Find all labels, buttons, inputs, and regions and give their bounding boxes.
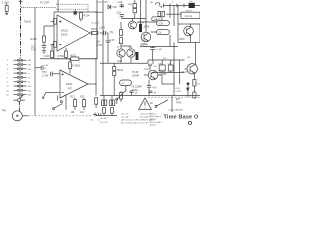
svg-text:C24: C24 <box>117 11 122 14</box>
transistor Q5 <box>140 32 151 46</box>
resistor network RN1 <box>102 96 107 116</box>
svg-text:SR.20: SR.20 <box>182 71 188 73</box>
svg-text:C41: C41 <box>145 69 150 71</box>
wire vertical x58 <box>57 0 59 12</box>
resistor R1 <box>2 1 9 15</box>
switch contact row 5 <box>7 77 31 80</box>
svg-text:1n: 1n <box>44 68 46 70</box>
switch contact row 8 <box>7 89 32 92</box>
oval adj <box>120 80 132 86</box>
svg-text:C.8R: C.8R <box>157 49 162 51</box>
transistor Q6 <box>179 24 193 42</box>
junction <box>173 83 174 84</box>
notes block <box>150 113 163 126</box>
capacitor C24b <box>148 91 156 95</box>
wire pill drop <box>169 35 171 47</box>
wire x97 <box>96 0 98 59</box>
svg-text:2k2: 2k2 <box>80 111 85 114</box>
svg-text:2V: 2V <box>158 31 161 34</box>
svg-text:E100: E100 <box>66 82 73 86</box>
capacitor C45 <box>193 80 202 87</box>
capacitor C24 <box>117 11 125 18</box>
connector CN3 <box>156 11 165 20</box>
capacitor C42 <box>147 80 158 96</box>
switch SW2 <box>53 96 63 110</box>
svg-text:C45: C45 <box>197 83 200 85</box>
resistor R22 <box>80 96 86 114</box>
shield chain line lower <box>19 102 21 112</box>
capacitor C120 input <box>42 71 60 77</box>
svg-text:x100: x100 <box>117 61 123 63</box>
svg-text:0.5V: 0.5V <box>158 22 163 25</box>
svg-text:R100: R100 <box>31 37 38 41</box>
capacitor C40 <box>148 64 158 70</box>
svg-text:HC1A: HC1A <box>61 29 68 33</box>
wire y95 rail <box>100 95 200 97</box>
svg-text:T.B COMP: T.B COMP <box>131 87 142 89</box>
diode D4 <box>105 1 118 9</box>
svg-text:Ta-ban-480340: Ta-ban-480340 <box>168 110 183 112</box>
svg-text:R21: R21 <box>71 96 76 99</box>
transistor Q7 <box>182 57 198 80</box>
power column wire <box>102 0 104 63</box>
svg-text:R107: R107 <box>91 28 98 31</box>
chain tick <box>19 1 23 3</box>
box top right <box>181 12 200 18</box>
svg-text:R103: R103 <box>70 54 77 57</box>
wire to callouts <box>137 18 156 32</box>
wire U2 output <box>88 83 96 85</box>
svg-text:5M: 5M <box>28 69 31 71</box>
wire x107 <box>107 44 109 63</box>
dotted signal line from shield <box>21 7 56 9</box>
wire feed to pad <box>74 9 76 11</box>
svg-text:SL.SET: SL.SET <box>92 23 100 25</box>
resistor R103 inline <box>51 54 96 60</box>
svg-text:C51 C52: C51 C52 <box>100 122 109 124</box>
svg-text:R.SW2: R.SW2 <box>72 65 81 68</box>
resistor R100 <box>31 36 46 46</box>
resistor R105 feedback leg <box>44 44 54 59</box>
dotted trace upper <box>56 3 88 5</box>
label ext <box>176 99 182 104</box>
dashed rail right <box>148 96 200 98</box>
wire x195 collector <box>195 42 197 64</box>
wire x128 drop <box>130 92 132 95</box>
svg-text:C2R: C2R <box>142 44 147 46</box>
junction pad <box>74 11 77 14</box>
svg-text:MOD 2: MOD 2 <box>150 119 157 121</box>
dotted trace lower <box>56 8 88 10</box>
test point TP12 <box>117 1 124 8</box>
svg-text:2M: 2M <box>28 65 31 67</box>
legend text <box>121 113 154 125</box>
wire x103 lower <box>102 63 104 95</box>
top right bus <box>163 2 200 8</box>
svg-text:4.7n: 4.7n <box>152 87 157 89</box>
resistor R102 input <box>51 42 57 48</box>
switch SW4 <box>150 100 168 108</box>
inductor L1 dark <box>186 3 195 13</box>
svg-text:C.PW: C.PW <box>175 91 180 93</box>
svg-text:B.mt 1: B.mt 1 <box>150 124 157 126</box>
transistor Q1 <box>129 18 150 29</box>
connector J1 input <box>2 109 28 121</box>
svg-text:+12V: +12V <box>117 1 123 4</box>
transistor Q8 <box>144 69 167 80</box>
ground cluster <box>90 113 101 122</box>
wire rail y60 right <box>148 59 185 61</box>
svg-text:D.C: D.C <box>99 2 103 4</box>
output stage box <box>178 24 200 42</box>
wire x172 drop <box>171 96 173 113</box>
op-amp U1 <box>57 15 90 51</box>
svg-text:Time Base O: Time Base O <box>164 115 199 121</box>
resistor R110 <box>69 59 81 74</box>
resistor R101 input <box>51 19 57 25</box>
svg-text:MOD 1: MOD 1 <box>150 113 157 115</box>
svg-text:C.05: C.05 <box>110 40 116 42</box>
switch contact row 3 <box>7 68 31 71</box>
junction <box>95 83 96 84</box>
wire rail y115.5 <box>96 115 117 117</box>
wire vertical A <box>34 8 36 116</box>
wire rail mid <box>40 58 97 60</box>
svg-text:B2L-Cape 1: B2L-Cape 1 <box>150 116 162 118</box>
resistor R31 <box>133 0 137 18</box>
wire x174 <box>173 42 175 95</box>
label TB level <box>131 87 142 92</box>
wire bus y18 <box>122 17 146 19</box>
wire x140 <box>140 0 142 24</box>
ground arrow <box>43 92 47 98</box>
resistor R36 <box>168 60 174 73</box>
capacitor C2 <box>31 44 46 51</box>
svg-text:C.W: C.W <box>44 65 48 67</box>
ground <box>42 51 47 54</box>
resistor R104 <box>79 13 90 22</box>
svg-text:Tab B: Tab B <box>24 19 31 23</box>
callout box W0 <box>152 17 162 21</box>
svg-text:E100: E100 <box>61 33 68 37</box>
wire x179.5 <box>179 60 181 84</box>
svg-text:TRIG: TRIG <box>176 102 182 104</box>
wire y72.5 <box>152 72 185 74</box>
resistor R106 feedback leg <box>58 48 68 59</box>
op-amp U2 <box>60 70 88 98</box>
wire Q8 collector <box>152 60 154 64</box>
svg-text:C.2W: C.2W <box>96 45 103 47</box>
capacitor C23 <box>129 91 137 95</box>
svg-text:R.SW: R.SW <box>58 55 65 58</box>
svg-text:n.c: n.c <box>98 119 101 121</box>
svg-text:r.b = 1 k: r.b = 1 k <box>121 113 129 116</box>
wire y12 stub <box>95 11 103 13</box>
svg-text:20u: 20u <box>28 90 31 92</box>
shield chain line (dash-dot) <box>20 0 22 58</box>
ground near cluster <box>107 33 109 41</box>
resistor network RN2 <box>110 96 115 116</box>
svg-text:+2V: +2V <box>96 42 101 44</box>
svg-text:5V6: 5V6 <box>113 6 118 9</box>
switch wiper <box>13 95 25 102</box>
capacitor C11 <box>35 65 48 70</box>
svg-text:50u: 50u <box>28 95 31 97</box>
callout label W2 <box>156 30 169 35</box>
wire right rail y46 <box>140 45 178 47</box>
value labels RN <box>100 118 109 124</box>
svg-text:10n 4n7: 10n 4n7 <box>100 118 108 120</box>
svg-text:b: b <box>172 2 173 4</box>
svg-text:C105: C105 <box>99 27 106 30</box>
svg-text:c.b = pF: c.b = pF <box>121 117 129 119</box>
svg-text:2N39: 2N39 <box>144 26 150 28</box>
wire x197 <box>193 86 195 92</box>
svg-text:all C val less than 1 are in u: all C val less than 1 are in uF l <box>121 122 149 125</box>
svg-text:4.7n: 4.7n <box>31 48 37 52</box>
svg-text:1M: 1M <box>28 60 31 62</box>
svg-text:2.2k 1k: 2.2k 1k <box>185 16 193 18</box>
svg-text:R104: R104 <box>83 15 90 18</box>
resistor R21 <box>71 96 77 114</box>
svg-text:EXT: EXT <box>176 99 181 101</box>
svg-text:C.2W: C.2W <box>42 74 49 77</box>
switch contact row 1 <box>7 59 31 62</box>
switch contact row 7 <box>7 85 32 88</box>
svg-text:c: c <box>179 2 180 4</box>
switch contact row 9 <box>7 94 32 97</box>
svg-text:Sig: Sig <box>2 109 6 112</box>
dashed ground return <box>28 115 92 117</box>
resistor R23 <box>120 91 123 102</box>
wire y63 rail <box>100 62 148 64</box>
switch SW3 <box>116 86 127 104</box>
svg-text:1/2: 1/2 <box>68 86 72 90</box>
svg-text:B1-D1-T66 1: B1-D1-T66 1 <box>150 122 163 124</box>
amplifier block box <box>54 12 97 59</box>
svg-text:LEVEL: LEVEL <box>131 90 139 92</box>
svg-text:SW.Q: SW.Q <box>117 70 123 72</box>
warning triangle <box>139 98 152 110</box>
components right column x121 <box>110 22 123 46</box>
wire vertical x96 <box>95 59 97 96</box>
arc jumper <box>151 2 160 6</box>
switch contact row 6 <box>7 81 31 84</box>
trimmer R45 <box>113 63 124 96</box>
svg-text:COMP: COMP <box>132 75 139 77</box>
emitter stubs <box>121 57 131 63</box>
switch contact row 4 <box>7 72 31 75</box>
svg-text:HC1B: HC1B <box>160 71 167 73</box>
label TB comp <box>132 72 139 77</box>
svg-text:C106: C106 <box>44 55 51 58</box>
svg-text:10u: 10u <box>28 86 31 88</box>
resistor R46 <box>186 92 196 98</box>
svg-text:TO CRT: TO CRT <box>40 0 50 4</box>
capacitor C32 tantalum <box>136 52 139 60</box>
capacitor C31 tantalum <box>139 24 142 32</box>
capacitor C105 <box>99 27 108 36</box>
wire q8 out <box>158 75 174 84</box>
switch contact row 2 <box>7 64 31 67</box>
wire pair tops <box>121 45 131 48</box>
transistor Q2 <box>117 46 125 57</box>
wire CN3 to box <box>166 13 181 15</box>
wire input branch <box>44 26 54 36</box>
resistor R20 <box>95 98 98 108</box>
transistor Q3 <box>127 46 135 57</box>
sync components <box>142 41 162 60</box>
wire x146 <box>145 0 147 18</box>
wire x66 drop <box>65 95 67 110</box>
wire op-amp output <box>90 32 93 34</box>
resistor R35 <box>158 60 165 73</box>
switch SW1 column <box>19 58 21 98</box>
svg-text:2N39: 2N39 <box>179 39 185 41</box>
callout label W1 <box>156 21 169 26</box>
wire drops top right <box>170 5 178 26</box>
wire inverting input <box>46 91 60 93</box>
diode D7 <box>175 82 189 96</box>
svg-text:1.5M: 1.5M <box>2 1 9 5</box>
svg-text:HC1B: HC1B <box>132 72 139 74</box>
svg-text:R22: R22 <box>80 96 85 99</box>
logo mark <box>188 121 191 124</box>
resistor R107 <box>91 23 103 35</box>
label set <box>96 42 103 47</box>
dotted drop <box>87 4 89 12</box>
